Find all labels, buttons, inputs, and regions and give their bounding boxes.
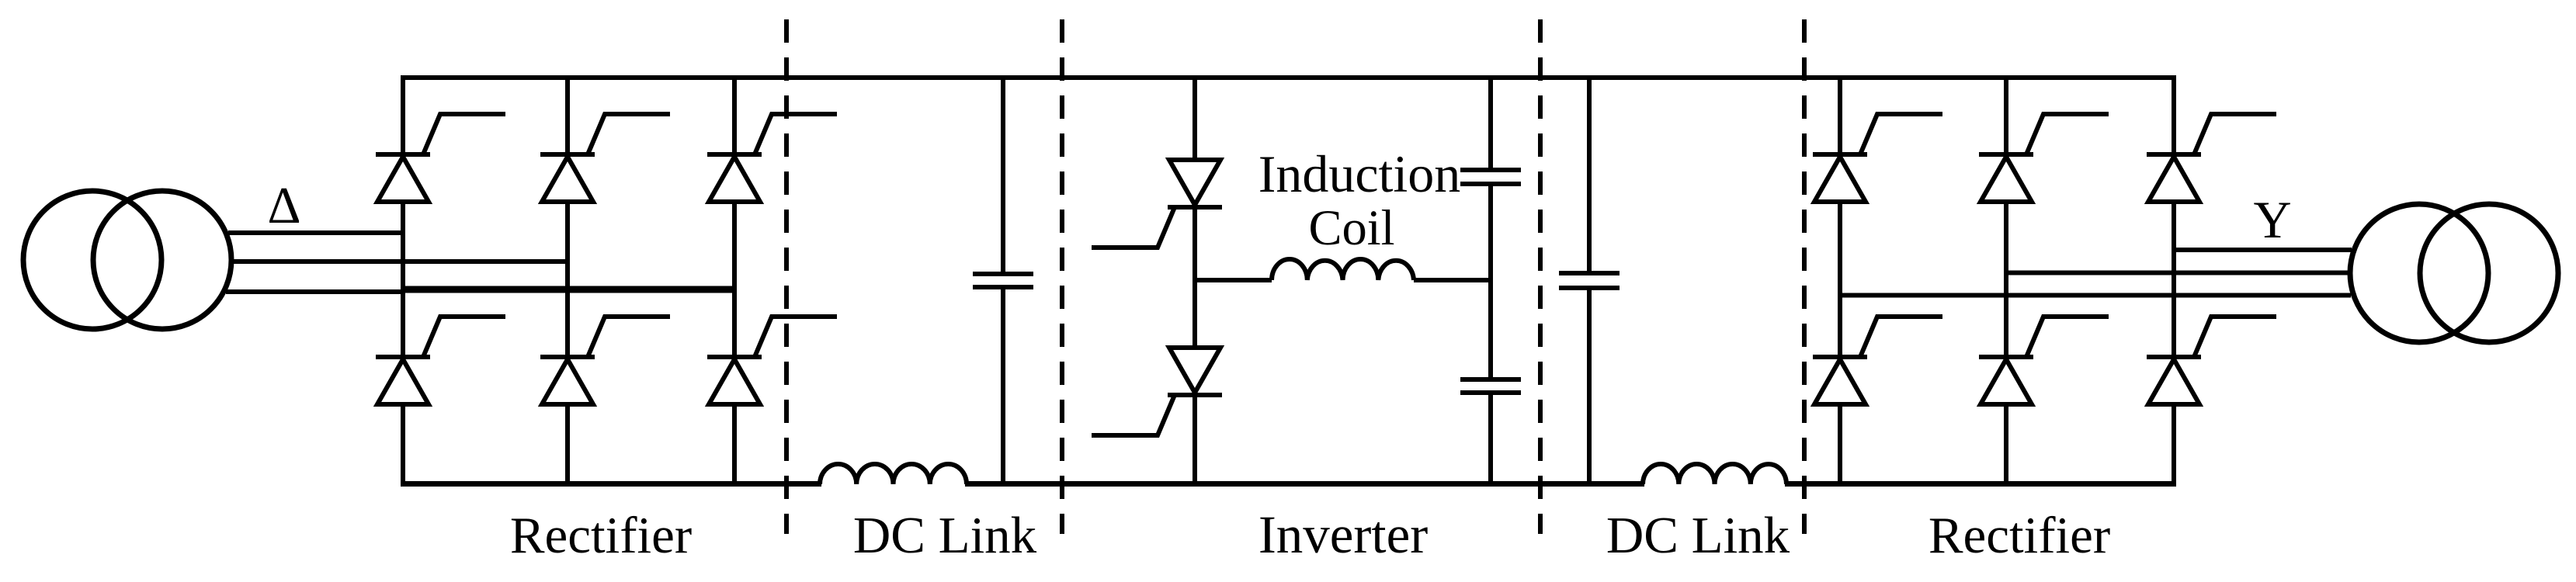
wire left rectifier leg 3 — [732, 75, 737, 486]
wire phase 3 right (leg 1 to transformer) — [1840, 293, 2351, 298]
thyristor inverter bottom — [1092, 348, 1222, 435]
thyristor left rectifier leg1 top — [376, 114, 505, 202]
inductor DC link 1 (bottom bus) — [820, 464, 967, 484]
thyristor right rectifier leg1 top — [1813, 114, 1942, 202]
wire left rectifier leg 2 — [565, 75, 570, 486]
svg-text:Y: Y — [2253, 190, 2291, 249]
node label delta — [267, 177, 300, 234]
capacitor inverter bottom — [1460, 379, 1521, 393]
dashed separator line 3 — [1538, 19, 1543, 534]
label Rectifier (left) — [510, 507, 692, 564]
wire left rectifier leg 1 — [401, 75, 405, 486]
thyristor right rectifier leg2 top — [1979, 114, 2109, 202]
wire inverter leg 1 — [1193, 75, 1197, 486]
thyristor right rectifier leg1 bottom — [1813, 317, 1942, 404]
label DC Link (right) — [1606, 507, 1790, 564]
thyristor right rectifier leg3 top — [2147, 114, 2276, 202]
wire phase 1 left (transformer to leg 1) — [228, 230, 404, 235]
capacitor DC link 1 — [973, 274, 1033, 287]
wire bottom DC bus segment 1 — [401, 481, 821, 487]
label Inverter — [1258, 505, 1428, 564]
transformer T2 secondary winding (Y side) — [2420, 204, 2558, 342]
svg-text:Rectifier: Rectifier — [510, 507, 692, 564]
capacitor inverter top — [1460, 170, 1521, 184]
svg-text:Rectifier: Rectifier — [1929, 507, 2110, 564]
wire induction coil node (right) — [1414, 278, 1491, 282]
thyristor inverter top — [1092, 160, 1222, 248]
node label Y — [2253, 190, 2291, 249]
svg-text:DC Link: DC Link — [1606, 507, 1790, 564]
thyristor right rectifier leg2 bottom — [1979, 317, 2109, 404]
wire inverter leg 2 — [1488, 75, 1493, 486]
svg-text:DC Link: DC Link — [853, 507, 1037, 564]
transformer T1 secondary winding — [93, 191, 231, 329]
thyristor left rectifier leg3 bottom — [707, 317, 837, 404]
wire DC link 2 capacitor leg — [1587, 75, 1592, 486]
label DC Link (left) — [853, 507, 1037, 564]
capacitor DC link 2 — [1559, 273, 1620, 288]
transformer T2 primary winding — [2350, 204, 2488, 342]
label Induction — [1258, 144, 1461, 203]
wire phase 3 left (transformer to leg 3) — [226, 289, 734, 292]
wire right rectifier leg 3 — [2172, 75, 2176, 486]
wire bottom DC bus segment 2 — [965, 481, 1644, 487]
wire phase 2 right (leg 2 to transformer) — [2006, 271, 2348, 275]
svg-text:Coil: Coil — [1308, 200, 1394, 255]
wire top DC bus — [401, 75, 2176, 80]
svg-text:Inverter: Inverter — [1258, 505, 1428, 564]
svg-text:Induction: Induction — [1258, 144, 1461, 203]
wire right rectifier leg 1 — [1838, 75, 1842, 486]
transformer T1 primary winding (delta side) — [23, 191, 161, 329]
thyristor left rectifier leg2 top — [540, 114, 670, 202]
label Coil — [1308, 200, 1394, 255]
thyristor left rectifier leg1 bottom — [376, 317, 505, 404]
wire phase 2 left (transformer to leg 2) — [234, 259, 568, 264]
wire right rectifier leg 2 — [2004, 75, 2008, 486]
wire DC link 1 capacitor leg — [1001, 75, 1005, 486]
thyristor right rectifier leg3 bottom — [2147, 317, 2276, 404]
inductor induction coil — [1272, 259, 1414, 280]
svg-text:Δ: Δ — [267, 177, 300, 234]
label Rectifier (right) — [1929, 507, 2110, 564]
dashed separator line 4 — [1802, 19, 1807, 534]
thyristor left rectifier leg3 top — [707, 114, 837, 202]
dashed separator line 2 — [1060, 19, 1064, 534]
wire phase 1 right (leg 3 to transformer) — [2174, 248, 2352, 252]
wire induction coil node (left) — [1195, 278, 1272, 282]
dashed separator line 1 — [784, 19, 789, 534]
inductor DC link 2 (bottom bus) — [1643, 464, 1786, 484]
wire bottom DC bus segment 3 — [1785, 481, 2176, 487]
thyristor left rectifier leg2 bottom — [540, 317, 670, 404]
